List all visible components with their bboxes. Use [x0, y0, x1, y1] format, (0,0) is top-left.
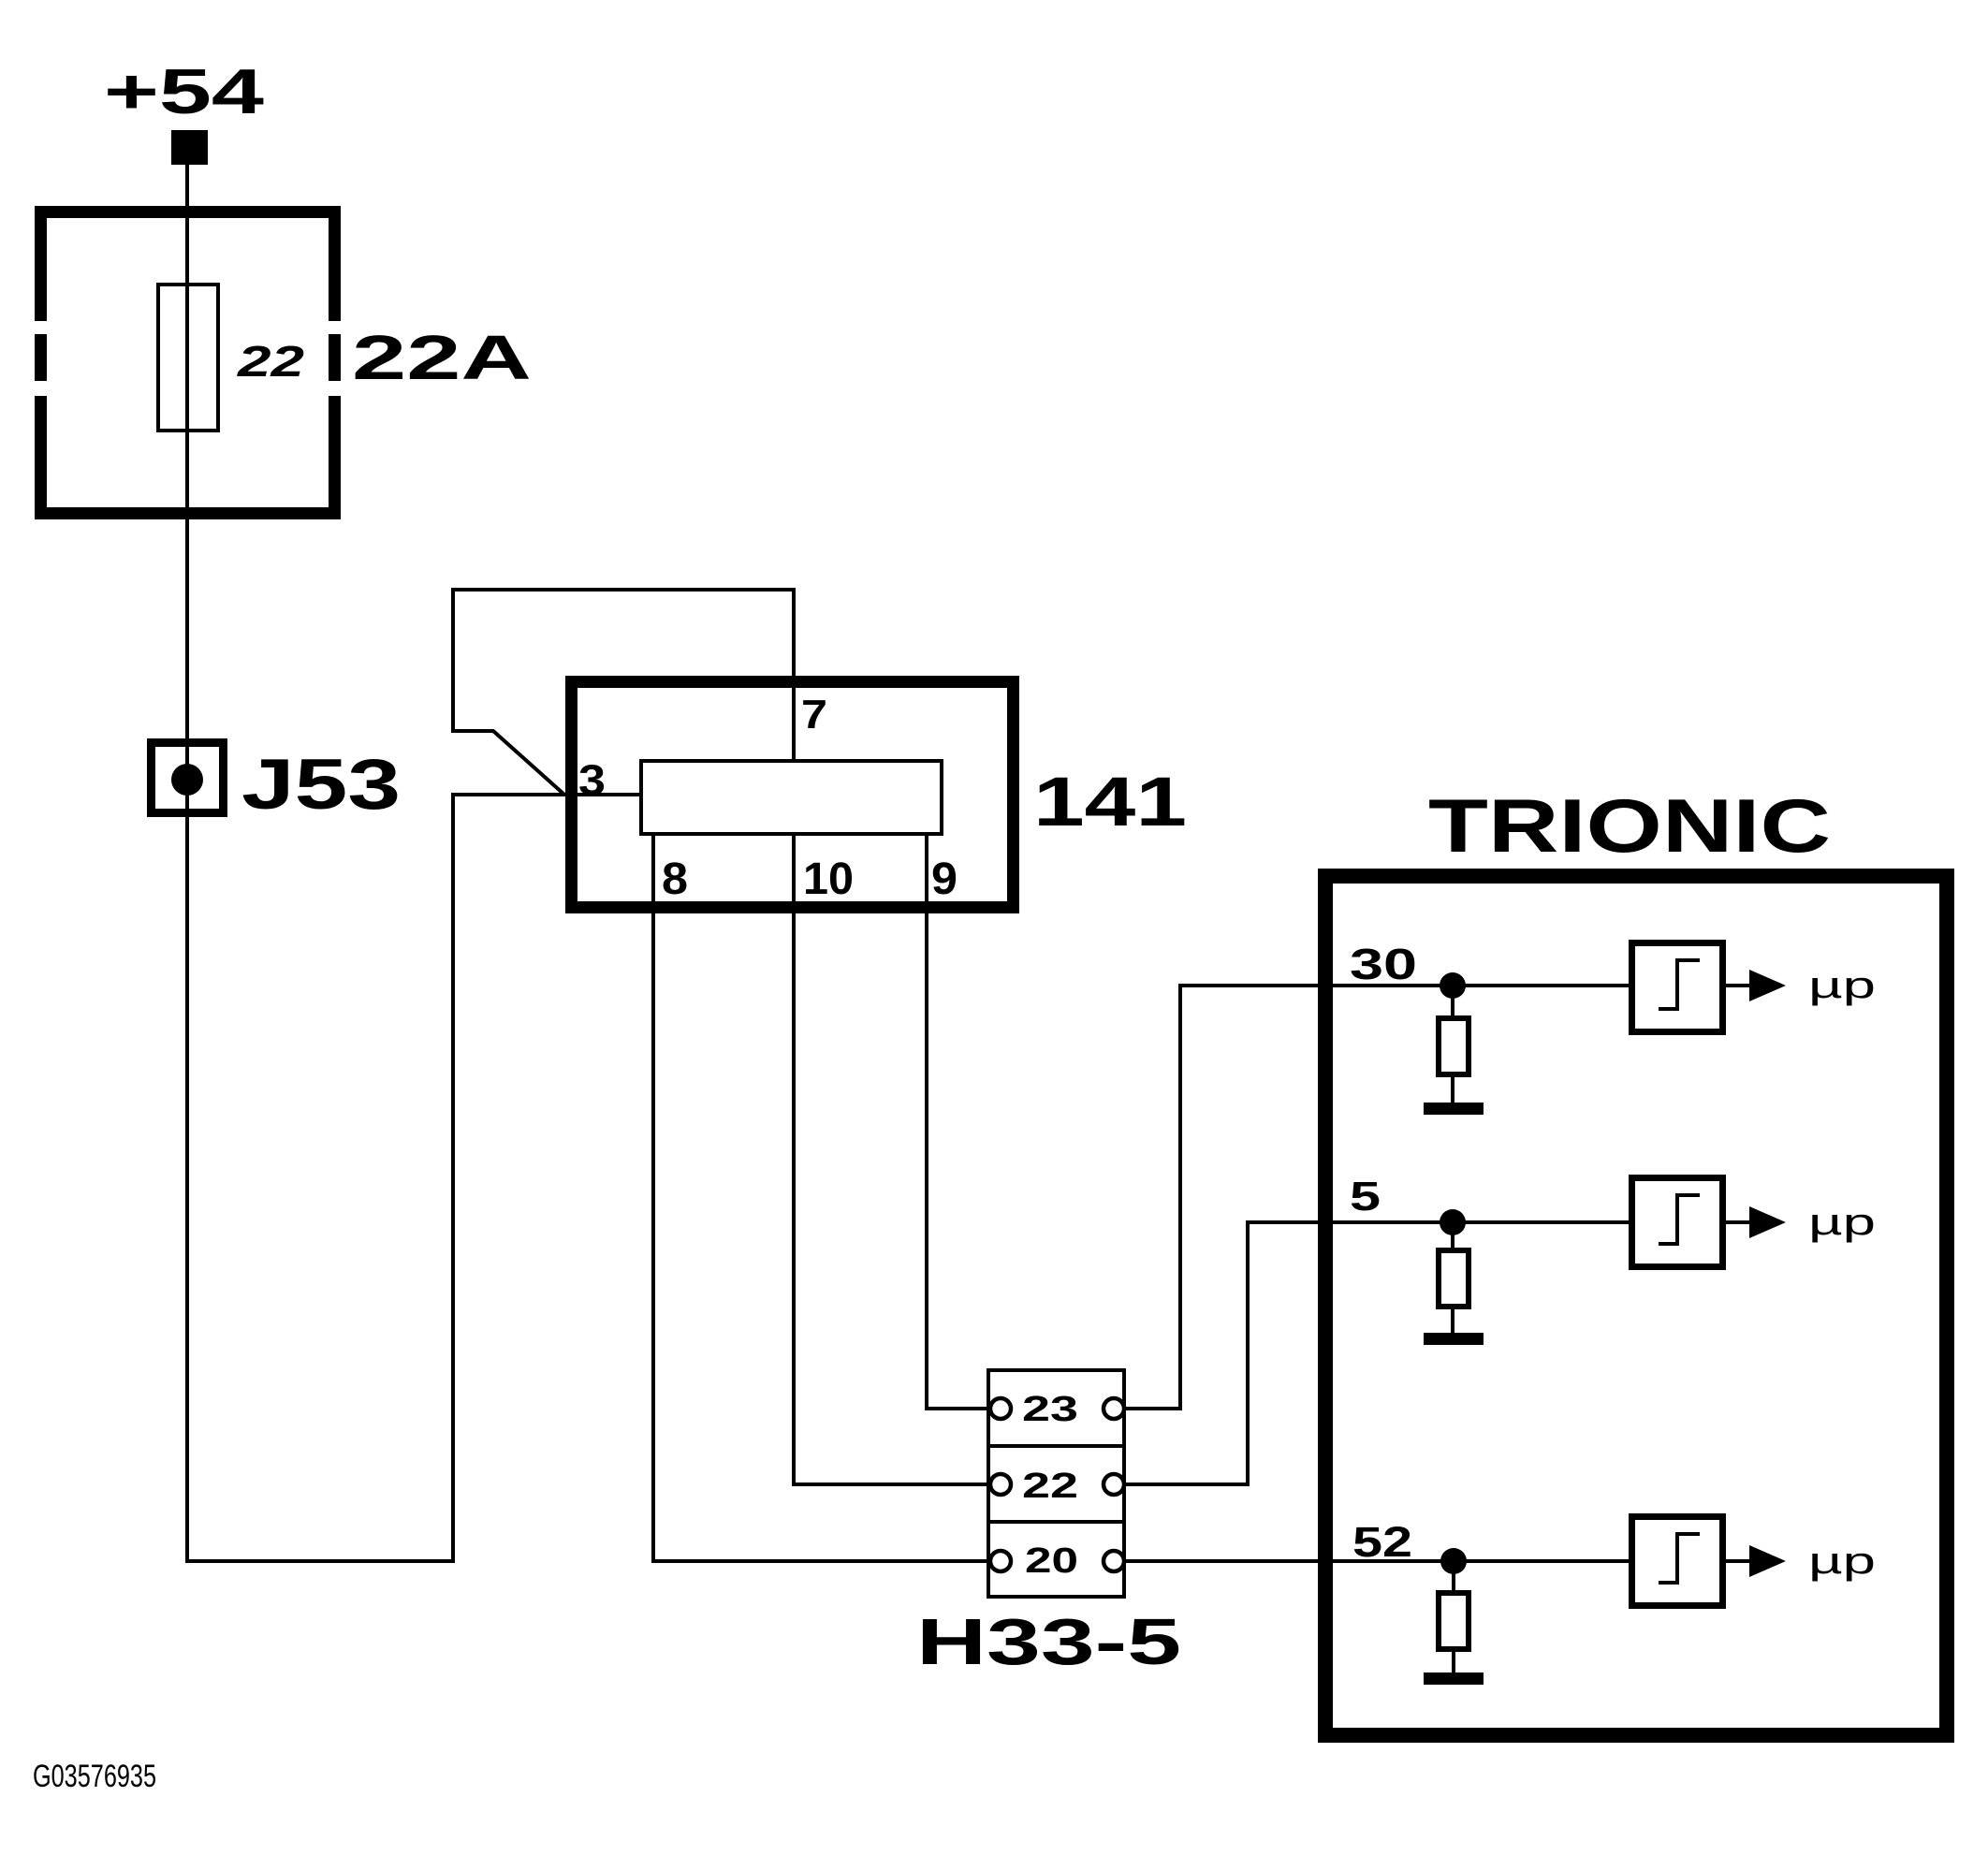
fuse box right border segment 3	[329, 396, 341, 519]
svg-text:10: 10	[803, 854, 854, 904]
fuse box right border segment 2	[329, 334, 341, 381]
junction dot J53	[171, 764, 203, 796]
arrow to microprocessor (pin 52)	[1749, 1545, 1786, 1577]
ground bar (pin 30 pulldown)	[1424, 1103, 1484, 1115]
svg-text:20: 20	[1025, 1541, 1078, 1581]
wire vertical to pin 5	[1246, 1220, 1250, 1486]
ground bar (pin 5 pulldown)	[1424, 1333, 1484, 1345]
wire schmitt U5 to arrow	[1726, 1220, 1749, 1224]
wire loop vertical up to pin 3	[451, 795, 455, 1563]
wire pin 3 stub	[565, 793, 641, 796]
wire vertical to pin 30	[1178, 984, 1182, 1410]
arrow to microprocessor (pin 5)	[1749, 1206, 1786, 1238]
node +54 terminal square	[171, 130, 208, 165]
connector H33-5 pin circle at 1069,1668	[990, 1551, 1011, 1571]
svg-text:7: 7	[801, 692, 827, 738]
svg-text:µp: µp	[1808, 965, 1876, 1006]
junction dot pin 30	[1440, 972, 1466, 999]
svg-text:23: 23	[1022, 1390, 1078, 1429]
wire resistor R5 to ground	[1451, 1307, 1454, 1333]
wire to resistor R52	[1452, 1561, 1455, 1593]
connector H33-5 separator 1	[987, 1444, 1126, 1448]
fuse box right border segment 1	[329, 206, 341, 321]
connector J53 square	[152, 743, 224, 813]
wire pin 8 vertical	[651, 834, 655, 1563]
svg-text:141: 141	[1033, 763, 1187, 840]
svg-text:G03576935: G03576935	[33, 1759, 156, 1794]
wire diagonal into pin 3	[493, 731, 564, 795]
svg-text:22: 22	[1022, 1467, 1078, 1506]
wire top horizontal to pin 7	[451, 588, 796, 592]
resistor R30	[1439, 1018, 1469, 1074]
ignition switch 141 box	[572, 682, 1014, 908]
wire schmitt U30 to arrow	[1726, 984, 1749, 987]
schmitt trigger box U5	[1632, 1178, 1723, 1267]
wire through J53	[185, 738, 189, 1563]
wire pin3 lower horizontal	[451, 793, 565, 796]
wire +54 to fusebox	[185, 165, 189, 208]
wire pin 20 / pin 52 horizontal	[1124, 1559, 1630, 1563]
wire through fusebox and fuse down to J53	[185, 208, 189, 738]
wire schmitt U52 to arrow	[1726, 1559, 1749, 1563]
schmitt trigger box U52	[1632, 1517, 1723, 1606]
fuse box left border segment 1	[35, 206, 47, 321]
wire pin 5 horizontal	[1246, 1220, 1630, 1224]
wire pin 22 right run	[1124, 1483, 1250, 1486]
schmitt trigger box U30	[1632, 943, 1723, 1032]
fuse 22 element	[158, 285, 218, 431]
fuse box 22 (dashed enclosure) top border	[35, 206, 341, 218]
connector H33-5 pin circle at 1190,1668	[1104, 1551, 1124, 1571]
wire pin 9 vertical	[925, 834, 928, 1410]
svg-text:H33-5: H33-5	[916, 1605, 1181, 1678]
svg-text:22A: 22A	[352, 323, 532, 393]
fuse box bottom border	[35, 507, 341, 519]
svg-text:+54: +54	[104, 56, 264, 127]
connector H33-5 pin circle at 1190,1586	[1104, 1474, 1124, 1495]
svg-text:52: 52	[1352, 1518, 1412, 1566]
wire resistor R30 to ground	[1451, 1074, 1454, 1103]
fuse box left border segment 3	[35, 396, 47, 519]
wire upper vertical	[451, 590, 455, 731]
svg-text:5: 5	[1350, 1174, 1381, 1220]
arrow to microprocessor (pin 30)	[1749, 970, 1786, 1001]
connector H33-5 separator 2	[987, 1520, 1126, 1524]
svg-text:30: 30	[1350, 940, 1417, 988]
svg-text:22: 22	[237, 337, 305, 386]
svg-text:3: 3	[578, 756, 606, 804]
schmitt step symbol U30	[1675, 960, 1679, 1011]
ECU TRIONIC box	[1325, 876, 1947, 1735]
wire pin3 upper horizontal	[451, 729, 494, 733]
svg-text:TRIONIC: TRIONIC	[1428, 784, 1831, 869]
wire pin 7 vertical	[792, 588, 796, 763]
schmitt step symbol U5	[1675, 1195, 1679, 1246]
ground bar (pin 52 pulldown)	[1424, 1672, 1484, 1685]
connector H33-5 pin circle at 1069,1586	[990, 1474, 1011, 1495]
wire pin 22 left run	[792, 1483, 988, 1486]
wire pin 23 right run	[1124, 1407, 1182, 1410]
connector H33-5 box	[988, 1370, 1124, 1597]
schmitt step symbol U52	[1675, 1534, 1679, 1585]
resistor R52	[1439, 1593, 1469, 1649]
wire bottom loop horizontal	[185, 1559, 455, 1563]
svg-text:9: 9	[931, 854, 957, 904]
svg-text:µp: µp	[1808, 1202, 1876, 1243]
wire resistor R52 to ground	[1452, 1649, 1455, 1672]
svg-text:8: 8	[662, 854, 688, 904]
junction dot pin 52	[1440, 1548, 1467, 1574]
wire pin 10 vertical	[792, 834, 796, 1486]
wire pin 20 left run	[651, 1559, 988, 1563]
fuse box left border segment 2	[35, 334, 47, 381]
connector H33-5 pin circle at 1069,1505	[990, 1398, 1011, 1419]
wire to resistor R5	[1451, 1222, 1454, 1250]
connector H33-5 pin circle at 1190,1505	[1104, 1398, 1124, 1419]
svg-text:J53: J53	[241, 745, 401, 825]
resistor R5	[1439, 1250, 1469, 1307]
svg-text:µp: µp	[1808, 1541, 1876, 1582]
wire to resistor R30	[1451, 986, 1454, 1018]
junction dot pin 5	[1440, 1209, 1466, 1235]
wire pin 30 horizontal	[1178, 984, 1630, 987]
ignition switch 141 inner contact bar	[641, 761, 942, 834]
wire pin 23 left run	[925, 1407, 988, 1410]
